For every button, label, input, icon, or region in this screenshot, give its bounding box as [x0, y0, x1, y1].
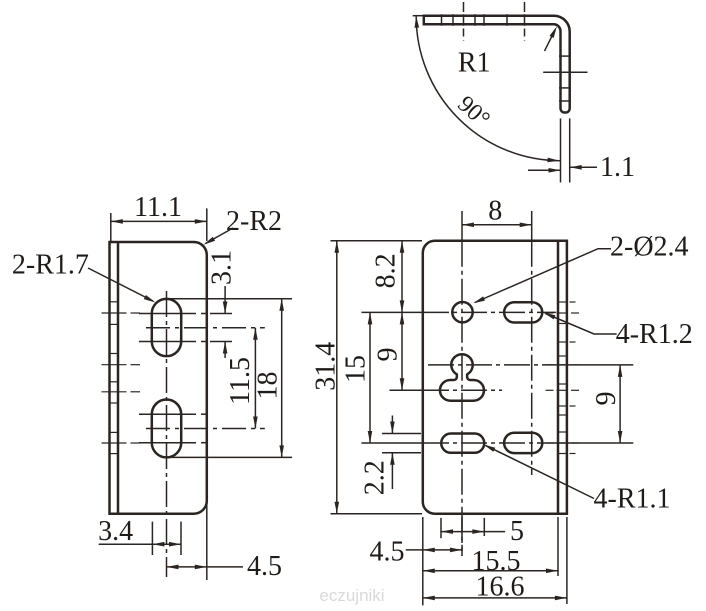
slot edge rows for 2.2 [382, 433, 421, 435]
svg-text:31.4: 31.4 [310, 342, 341, 391]
leader arrow R1 [545, 31, 555, 51]
left view slot centerline vertical [166, 291, 168, 577]
bottom-left slot 4-R1.1 [441, 434, 484, 453]
svg-text:2-Ø2.4: 2-Ø2.4 [610, 232, 689, 263]
left view: flange plate outline [110, 242, 207, 514]
svg-text:15: 15 [340, 355, 371, 383]
svg-text:4-R1.1: 4-R1.1 [594, 484, 671, 515]
dimension 3.1 [224, 286, 226, 314]
profile strip hole-column ticks [441, 14, 443, 26]
hole row centerline [423, 311, 556, 313]
right 9 extension rows [548, 364, 633, 366]
slot S2 (lower) [152, 400, 181, 458]
thickness extension lines [560, 118, 562, 182]
blob row extension (9 left) [390, 389, 423, 391]
front view: bend line [557, 241, 560, 514]
dimension 4.5 (left view) [167, 566, 207, 568]
svg-text:2-R1.7: 2-R1.7 [12, 249, 89, 280]
svg-text:eczujniki: eczujniki [319, 586, 384, 605]
dimension 31.4 [336, 241, 338, 514]
dimension 8 [462, 224, 532, 226]
slot S2 arc-center rows [139, 413, 196, 415]
dimension 4.5 (front view) [406, 549, 423, 551]
round hole 2-dia2.4 [452, 302, 472, 322]
svg-text:16.6: 16.6 [476, 572, 525, 603]
dimension 11.5 [254, 328, 256, 429]
svg-text:1.1: 1.1 [600, 152, 635, 183]
bottom slot row extension (15/2.2) [361, 442, 422, 444]
dimension 9 (right) [619, 365, 621, 443]
left view edge-on hole-row ticks [102, 312, 127, 314]
dimension 5 [441, 531, 484, 533]
svg-text:3.4: 3.4 [98, 516, 133, 547]
svg-text:8: 8 [488, 196, 502, 227]
keyhole cutout [440, 354, 484, 400]
dimension 1.1 [528, 169, 561, 171]
leader arrow 2-R1.7 [88, 268, 153, 301]
dimension 11.1 extension lines [110, 213, 112, 241]
slot S1 arc-center rows [139, 313, 196, 315]
bottom slots row centerline [423, 442, 548, 444]
leader arrow 4-R1.2 [546, 314, 617, 335]
dimension 3.4 [99, 543, 153, 545]
dimension 11.1 [111, 220, 207, 222]
slot outer tangent rows for 18 [167, 298, 293, 300]
bottom extension row (31.4) [331, 513, 423, 515]
profile centerline column A [463, 2, 465, 12]
svg-text:2.2: 2.2 [359, 460, 390, 495]
front view: plate outline [423, 241, 567, 514]
keyhole circle row centerline [428, 364, 548, 366]
profile vertical-leg row ticks [559, 55, 571, 57]
hole row extension (8.2/15) [361, 311, 422, 313]
svg-text:4.5: 4.5 [370, 537, 405, 568]
dimension 9 (left) [401, 312, 403, 390]
svg-text:4.5: 4.5 [247, 551, 282, 582]
leader arrow 2-dia2.4 [475, 249, 611, 303]
slot center rows for 11.5 [146, 327, 265, 329]
left view: inner plate edge line [117, 242, 120, 514]
svg-text:11.1: 11.1 [134, 192, 182, 223]
keyhole blob row centerline [423, 389, 502, 391]
svg-text:9: 9 [591, 392, 622, 406]
svg-text:3.1: 3.1 [207, 250, 238, 285]
svg-text:9: 9 [373, 348, 404, 362]
dimension 18 [281, 299, 283, 458]
90 degree dimension arc [416, 17, 560, 161]
leader arrow 4-R1.1 [486, 445, 594, 498]
svg-text:R1: R1 [458, 48, 491, 79]
dimension 3.4 extension lines [151, 522, 153, 555]
right edge extension below [206, 503, 208, 580]
dimension 15.5 [423, 570, 558, 572]
svg-text:2-R2: 2-R2 [226, 206, 282, 237]
svg-text:4-R1.2: 4-R1.2 [616, 319, 693, 350]
slot S1 (upper, 2-R1.7) [152, 299, 181, 356]
leader arrow 2-R2 [206, 228, 234, 244]
dimension 15 [369, 312, 371, 443]
top-right slot 4-R1.2 [504, 302, 542, 322]
dimension 16.6 [423, 597, 567, 599]
top extension row (31.4/8.2) [331, 240, 423, 242]
dimension 8.2 [401, 241, 403, 313]
profile vertical-leg long centerline row [543, 71, 587, 73]
bottom-right slot [504, 433, 542, 453]
svg-text:18: 18 [253, 372, 284, 400]
profile view: bent sheet outline [413, 15, 424, 17]
profile centerline column B [524, 2, 526, 12]
svg-text:8.2: 8.2 [371, 253, 402, 288]
dimension 2.2 [391, 416, 393, 434]
front view bend strip row ticks [546, 312, 554, 314]
bottom extension lines [422, 517, 424, 605]
hole column centerline (vertical) [461, 211, 463, 241]
svg-text:5: 5 [510, 516, 524, 547]
right slot column centerline (vertical) [531, 211, 533, 241]
